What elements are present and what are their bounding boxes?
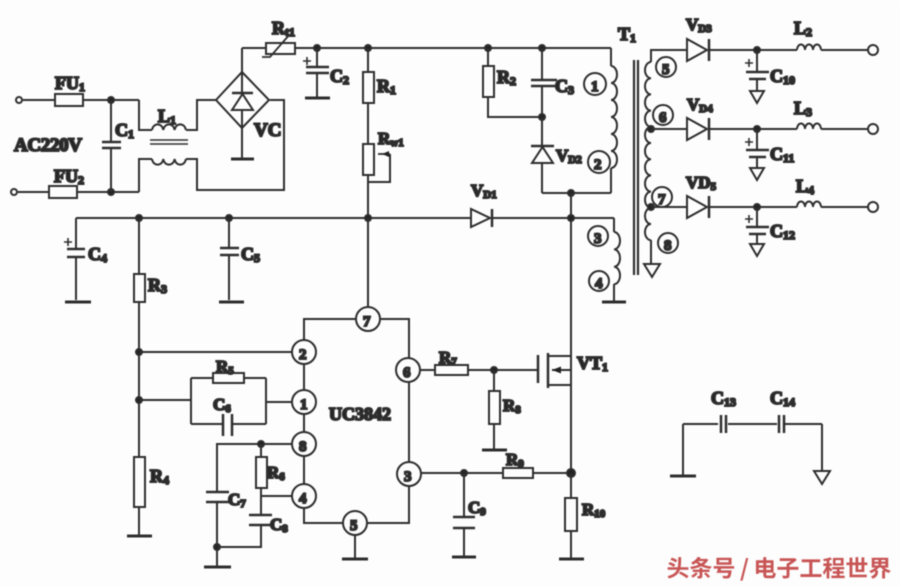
node tap 6 <box>648 126 654 132</box>
svg-text:3: 3 <box>404 469 412 485</box>
wire <box>709 49 797 51</box>
svg-text:8: 8 <box>299 439 307 455</box>
wire <box>241 48 243 72</box>
wire tap 7 <box>651 206 687 208</box>
wire aux bottom <box>613 284 615 301</box>
node R1 top <box>365 45 371 51</box>
resistor R4 <box>134 457 169 507</box>
pin 2 primary <box>588 151 610 173</box>
capacitor C11 <box>745 129 794 167</box>
wire <box>709 128 797 130</box>
pin 6 <box>396 358 420 382</box>
capacitor C14 <box>770 388 822 433</box>
capacitor C3 <box>531 48 574 117</box>
capacitor C9 <box>453 473 486 556</box>
svg-text:1: 1 <box>300 397 308 413</box>
resistor R7 <box>435 348 468 375</box>
node tap 7 <box>648 204 654 210</box>
wire <box>138 302 140 457</box>
capacitor C7 <box>206 490 246 510</box>
ground <box>750 244 764 256</box>
wire <box>533 472 571 474</box>
inductor L2 <box>794 18 821 50</box>
capacitor C8 <box>249 515 288 535</box>
wire <box>186 100 284 190</box>
svg-text:VC: VC <box>254 120 281 141</box>
wire <box>709 206 797 208</box>
pin 4 aux <box>589 271 609 292</box>
node R6 top <box>258 441 264 447</box>
node rail drain cross <box>568 215 574 221</box>
wire <box>542 192 611 194</box>
pin 1 <box>292 390 316 414</box>
ground <box>750 91 764 103</box>
wire <box>570 531 572 558</box>
ground <box>559 558 584 561</box>
node snubber <box>539 114 545 120</box>
svg-text:6: 6 <box>403 365 411 381</box>
rail Vcc wire <box>76 217 614 219</box>
wire pin4 <box>261 495 292 497</box>
node pin1 branch <box>136 397 142 403</box>
wire <box>260 488 262 515</box>
pin 3 aux <box>588 226 608 247</box>
ground <box>670 475 696 478</box>
inductor L3 <box>794 98 821 129</box>
node C7 C8 join <box>214 544 220 550</box>
svg-text:5: 5 <box>662 62 670 78</box>
node C2 top <box>314 45 320 51</box>
node gate R8 <box>491 367 497 373</box>
svg-text:3: 3 <box>594 231 602 247</box>
diode VD5 <box>686 173 717 218</box>
terminal input top <box>16 97 22 103</box>
wire secondary top <box>651 50 687 62</box>
node rail R3 <box>136 215 142 221</box>
pin 8 secondary <box>658 233 678 254</box>
wire <box>23 99 55 101</box>
node rail pin7 <box>365 215 371 221</box>
node C12 <box>754 204 760 210</box>
ground <box>644 264 660 277</box>
wire <box>242 47 266 49</box>
wire <box>241 128 243 158</box>
pin 4 <box>292 484 316 508</box>
pin 5 <box>343 511 367 535</box>
pin 7 secondary <box>652 187 672 208</box>
wire <box>821 424 823 471</box>
wire secondary bottom <box>650 240 652 264</box>
wire <box>138 507 140 535</box>
ground <box>219 301 244 304</box>
wire <box>821 49 868 51</box>
wire gate <box>468 369 538 371</box>
transformer T1 core <box>618 24 638 275</box>
ground <box>482 449 507 452</box>
wire pin1 left <box>139 399 191 401</box>
wire pin5 down <box>354 535 356 558</box>
capacitor C5 <box>220 218 260 300</box>
op-amp U1 UC3842 box <box>304 319 409 523</box>
wire pin2 <box>139 351 292 353</box>
terminal input bottom <box>11 189 17 195</box>
node rail C5 <box>226 215 232 221</box>
pin 5 secondary <box>656 57 676 78</box>
ground <box>65 301 91 304</box>
resistor R5 parallel capacitor C6 network <box>191 357 266 436</box>
capacitor C4 <box>64 218 107 300</box>
ground <box>814 471 830 484</box>
fuse FU2 <box>49 166 84 198</box>
resistor R2 <box>483 48 516 97</box>
inductor L1 <box>150 106 188 165</box>
bridge rectifier VC <box>216 72 281 141</box>
wire drain <box>570 193 572 473</box>
ground <box>127 535 152 538</box>
svg-text:7: 7 <box>363 314 371 330</box>
winding primary <box>611 66 617 168</box>
pin 6 secondary <box>653 105 673 126</box>
wire pin6 <box>420 369 435 371</box>
wire <box>186 100 216 130</box>
svg-text:4: 4 <box>299 491 307 507</box>
resistor R6 <box>256 444 285 488</box>
transistor VT1 <box>538 353 608 388</box>
pin 8 <box>292 432 316 456</box>
wire <box>295 47 611 49</box>
capacitor C1 <box>102 100 134 192</box>
winding secondary <box>645 62 651 240</box>
ground <box>231 158 254 161</box>
thermistor Rt1 <box>262 18 295 57</box>
node drain top <box>568 190 574 196</box>
node C10 <box>754 47 760 53</box>
wire <box>139 100 152 130</box>
pin 3 <box>397 462 421 486</box>
node C3 top <box>539 45 545 51</box>
svg-text:7: 7 <box>658 192 666 208</box>
wire <box>682 424 684 475</box>
fuse FU1 <box>55 73 85 106</box>
wire <box>367 103 369 144</box>
ground <box>204 566 231 569</box>
capacitor C10 <box>745 50 795 90</box>
pin 2 <box>292 340 316 364</box>
wire <box>139 159 152 192</box>
wire pin3 <box>421 472 503 474</box>
wire pin8 <box>217 444 292 492</box>
ground <box>305 97 330 100</box>
wire primary top <box>610 48 612 66</box>
capacitor C13 <box>683 388 777 433</box>
svg-text:1: 1 <box>591 79 599 95</box>
wire primary bottom <box>610 168 612 193</box>
potentiometer Rw1 <box>363 129 404 182</box>
watermark <box>667 557 890 581</box>
ground <box>750 168 764 180</box>
wire <box>488 97 542 117</box>
svg-text:UC3842: UC3842 <box>329 404 391 424</box>
wire <box>821 206 868 208</box>
svg-text:4: 4 <box>595 276 603 292</box>
wire <box>18 191 49 193</box>
svg-text:AC220V: AC220V <box>14 135 82 156</box>
wire <box>83 99 139 101</box>
wire pin7 up <box>367 218 369 307</box>
diode VD3 <box>686 15 712 61</box>
wire <box>77 191 139 193</box>
node AC N <box>108 189 114 195</box>
terminal out 1 <box>868 45 878 55</box>
diode VD4 <box>687 95 713 140</box>
node R2 top <box>485 45 491 51</box>
wire <box>367 175 369 218</box>
pin 7 <box>356 307 380 331</box>
diode VD2 <box>531 117 582 193</box>
wire tap 6 <box>651 128 687 130</box>
wire <box>493 424 495 449</box>
svg-text:6: 6 <box>659 110 667 126</box>
node C9 top <box>461 470 467 476</box>
wire aux top <box>613 218 615 232</box>
svg-text:2: 2 <box>594 157 602 173</box>
svg-text:2: 2 <box>299 347 307 363</box>
wire pin1 right <box>266 401 292 403</box>
terminal out 3 <box>868 202 878 212</box>
pin 1 primary <box>584 73 606 95</box>
wire <box>216 502 218 566</box>
capacitor C12 <box>745 207 795 243</box>
winding auxiliary <box>614 232 620 284</box>
inductor L4 <box>796 176 821 207</box>
svg-text:5: 5 <box>350 518 358 534</box>
diode VD1 <box>471 181 497 227</box>
wire <box>217 525 261 547</box>
resistor R1 <box>363 48 396 103</box>
node pin2 branch <box>136 349 142 355</box>
svg-text:8: 8 <box>664 238 672 254</box>
resistor R9 <box>503 450 533 478</box>
wire <box>821 128 868 130</box>
terminal out 2 <box>868 124 878 134</box>
resistor R10 <box>565 473 606 531</box>
ground <box>602 301 626 304</box>
node C11 <box>754 126 760 132</box>
resistor R8 <box>489 370 521 424</box>
node source sense <box>567 469 575 477</box>
node AC L <box>108 97 114 103</box>
resistor R3 <box>134 218 167 302</box>
ground <box>342 558 368 561</box>
ground <box>452 556 476 559</box>
capacitor C2 <box>303 48 349 97</box>
